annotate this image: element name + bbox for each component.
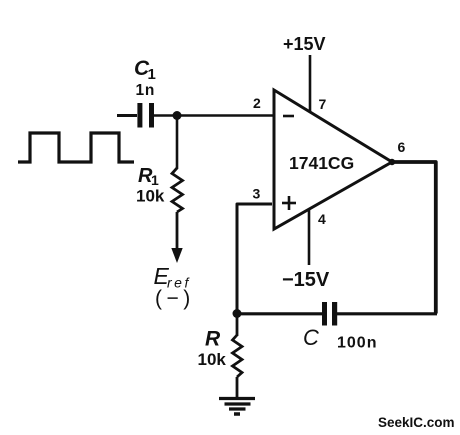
capacitor C1 — [137, 103, 154, 128]
pin number 6 — [398, 139, 406, 155]
svg-text:10k: 10k — [136, 187, 165, 206]
value 1n — [136, 82, 156, 99]
svg-text:R: R — [205, 328, 221, 351]
label Eref — [154, 263, 191, 291]
svg-text:SeekIC.com: SeekIC.com — [378, 415, 455, 430]
label +15V — [283, 34, 326, 54]
output node dot pin 6 — [389, 159, 395, 165]
svg-text:1741CG: 1741CG — [289, 153, 354, 173]
square wave input symbol — [18, 133, 134, 162]
svg-text:1: 1 — [148, 66, 156, 83]
wire node down to R1 — [176, 116, 179, 170]
wire node B to resistor R — [236, 314, 239, 337]
node junction at C1 output — [173, 111, 182, 120]
pin number 4 — [318, 211, 326, 227]
plus sign pin 3 — [282, 196, 296, 210]
svg-text:10k: 10k — [198, 350, 227, 369]
label -15V — [282, 269, 330, 291]
label R — [205, 328, 221, 351]
resistor R1 — [172, 168, 183, 212]
minus sign pin 2 — [283, 115, 294, 118]
op-amp U1 triangle — [274, 90, 392, 229]
wire pin 6 to right rail — [392, 162, 436, 314]
svg-text:4: 4 — [318, 211, 326, 227]
svg-text:(−): (−) — [155, 287, 195, 310]
svg-text:6: 6 — [398, 139, 406, 155]
node junction B — [233, 309, 242, 318]
label C1 — [134, 57, 156, 83]
value 10k — [136, 187, 165, 206]
svg-text:3: 3 — [253, 186, 261, 202]
wire pin 4 -15V supply — [308, 210, 311, 265]
label 1741CG — [289, 153, 354, 173]
svg-text:2: 2 — [253, 95, 261, 111]
wire C1 to pin 2 — [154, 114, 274, 117]
wire capacitor C to right rail — [337, 312, 437, 315]
label C — [303, 325, 319, 350]
label (-) — [155, 287, 195, 310]
svg-text:7: 7 — [319, 96, 327, 112]
pin number 3 — [253, 186, 261, 202]
wire input to C1 — [117, 114, 137, 117]
wire R to ground — [236, 377, 239, 398]
ground — [219, 399, 255, 415]
value 10k — [198, 350, 227, 369]
svg-text:+15V: +15V — [283, 34, 326, 54]
pin number 2 — [253, 95, 261, 111]
wire pin 7 +15V supply — [309, 55, 312, 112]
SeekIC.com watermark — [378, 415, 455, 430]
arrow to Eref — [171, 248, 182, 263]
resistor R — [233, 335, 243, 377]
capacitor C — [322, 302, 337, 326]
svg-text:100n: 100n — [337, 335, 377, 352]
svg-text:C: C — [303, 325, 319, 350]
pin number 7 — [319, 96, 327, 112]
svg-text:−15V: −15V — [282, 269, 330, 291]
label R1 — [138, 165, 159, 188]
wire R1 to arrow — [176, 212, 179, 250]
wire node B to capacitor C — [237, 312, 322, 315]
wire pin 3 to node B — [237, 204, 272, 314]
svg-text:1n: 1n — [136, 82, 156, 99]
value 100n — [337, 335, 377, 352]
